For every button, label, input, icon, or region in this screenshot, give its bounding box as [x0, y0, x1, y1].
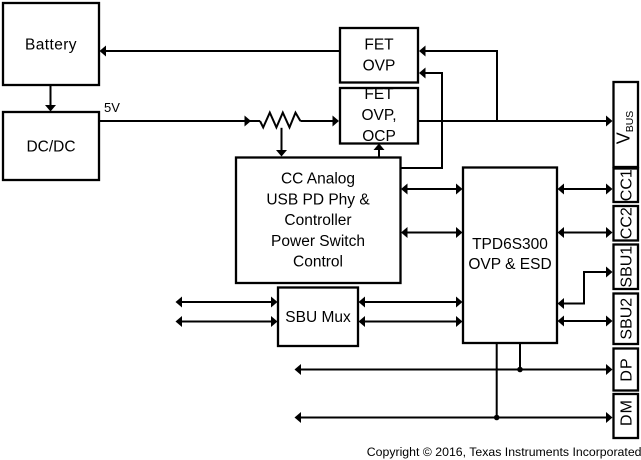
wire TPD6S300 DP stub: [519, 343, 521, 370]
wire FET OVP OCP output to VBUS pin: [418, 116, 613, 127]
svg-text:USB PD Phy &: USB PD Phy &: [266, 191, 370, 208]
svg-text:Control: Control: [293, 254, 343, 271]
svg-text:DM: DM: [619, 399, 636, 426]
svg-text:DC/DC: DC/DC: [26, 139, 75, 156]
wire CC Analog to FET OVP enable: [401, 68, 443, 169]
wire TPD6S300 to SBU2 pin: [558, 316, 613, 327]
svg-text:OVP & ESD: OVP & ESD: [468, 256, 551, 273]
connector pin CC2: [614, 206, 639, 241]
block CC Analog USB PD Phy and Controller Power Switch Control: [236, 158, 401, 284]
connector pin DP: [614, 349, 639, 391]
block FET OVP OCP: [340, 86, 418, 145]
svg-text:OVP: OVP: [363, 58, 396, 75]
wire TPD6S300 DM stub: [496, 343, 498, 418]
svg-text:OCP: OCP: [362, 128, 396, 145]
svg-text:CC2: CC2: [619, 207, 636, 239]
junction DM node: [494, 415, 500, 421]
svg-text:OVP,: OVP,: [361, 107, 396, 124]
svg-text:Battery: Battery: [25, 37, 77, 54]
svg-text:FET: FET: [364, 86, 394, 103]
svg-text:5V: 5V: [104, 100, 120, 115]
svg-text:SBU1: SBU1: [619, 246, 636, 288]
svg-text:SBU2: SBU2: [619, 298, 636, 340]
svg-text:Power Switch: Power Switch: [271, 233, 365, 250]
wire DC/DC 5V output to resistor: [99, 116, 260, 127]
wire TPD6S300 to CC1 pin: [558, 184, 613, 195]
wire SBU external pair upper: [176, 297, 278, 308]
wire resistor to FET OVP OCP input: [300, 116, 339, 127]
svg-text:TPD6S300: TPD6S300: [472, 236, 548, 253]
svg-text:Controller: Controller: [284, 212, 351, 229]
wire SBU external pair lower: [176, 316, 278, 327]
svg-text:DP: DP: [619, 357, 636, 381]
wire DM line: [295, 412, 613, 423]
wire TPD6S300 to CC2 pin: [558, 227, 613, 238]
wire DP line: [295, 364, 613, 375]
connector pin SBU1: [614, 245, 639, 290]
block DC/DC converter: [3, 112, 99, 180]
svg-text:CC1: CC1: [619, 169, 636, 201]
block TPD6S300 OVP and ESD: [463, 168, 557, 344]
block Battery: [3, 3, 99, 85]
svg-text:CC Analog: CC Analog: [281, 171, 355, 188]
wire CC Analog to FET OVP OCP gate: [374, 144, 385, 158]
wire Battery to DC/DC: [45, 85, 56, 112]
wire TPD6S300 to SBU1 pin stepped: [558, 267, 613, 310]
block SBU Mux: [278, 288, 358, 347]
resistor R1: [260, 113, 300, 128]
junction DP node: [517, 367, 523, 373]
connector pin CC1: [614, 169, 639, 203]
wire CC Analog to TPD6S300 CC2 path: [401, 227, 463, 238]
connector pin DM: [614, 394, 639, 438]
wire VBUS feedback to FET OVP: [419, 46, 497, 123]
block FET OVP: [340, 28, 418, 83]
wire CC Analog to TPD6S300 CC1 path: [401, 184, 463, 195]
connector pin SBU2: [614, 294, 639, 345]
wire FET OVP to Battery: [100, 46, 341, 57]
svg-text:SBU Mux: SBU Mux: [285, 309, 351, 326]
svg-text:Copyright © 2016, Texas Instru: Copyright © 2016, Texas Instruments Inco…: [367, 445, 641, 459]
connector pin VBUS: [614, 82, 639, 167]
wire SBU Mux to TPD6S300 lower: [359, 316, 463, 327]
wire SBU Mux to TPD6S300 upper: [359, 297, 463, 308]
svg-text:FET: FET: [364, 37, 394, 54]
wire resistor branch to CC Analog top: [276, 128, 287, 157]
